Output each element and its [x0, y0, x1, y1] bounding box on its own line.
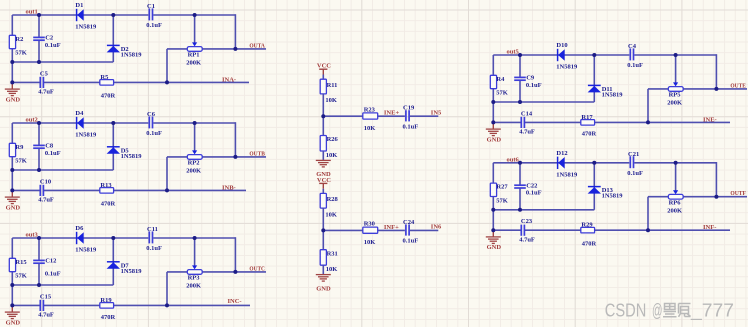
svg-text:IN6: IN6: [431, 224, 442, 231]
svg-text:GND: GND: [6, 96, 21, 103]
svg-text:1N5819: 1N5819: [602, 193, 624, 200]
svg-text:GND: GND: [6, 319, 21, 326]
svg-text:@: @: [652, 300, 663, 320]
svg-text:GND: GND: [6, 204, 21, 211]
svg-text:R2: R2: [15, 36, 23, 43]
svg-text:200K: 200K: [186, 60, 201, 67]
svg-text:0.1uF: 0.1uF: [45, 150, 61, 157]
svg-text:470R: 470R: [582, 131, 597, 138]
svg-text:C22: C22: [526, 182, 537, 189]
svg-text:D10: D10: [556, 42, 567, 49]
svg-text:R17: R17: [581, 114, 593, 121]
svg-text:C14: C14: [521, 110, 533, 117]
svg-text:out5: out5: [507, 49, 520, 56]
svg-text:0.1uF: 0.1uF: [627, 170, 643, 177]
svg-text:INC-: INC-: [228, 298, 242, 305]
svg-text:INA-: INA-: [222, 76, 236, 83]
svg-text:470R: 470R: [582, 240, 597, 247]
svg-text:0.1uF: 0.1uF: [45, 42, 61, 49]
svg-text:C19: C19: [403, 105, 415, 112]
svg-text:1N5819: 1N5819: [121, 268, 143, 275]
svg-text:OUTB: OUTB: [249, 150, 265, 157]
svg-text:INF+: INF+: [384, 224, 399, 231]
svg-text:1N5819: 1N5819: [556, 64, 578, 71]
svg-text:R23: R23: [364, 106, 376, 113]
svg-text:R26: R26: [327, 136, 339, 143]
svg-text:4.7uF: 4.7uF: [38, 89, 54, 96]
svg-text:1N5819: 1N5819: [556, 171, 578, 178]
svg-text:C8: C8: [45, 143, 54, 150]
svg-text:C24: C24: [403, 219, 415, 226]
svg-text:R11: R11: [327, 82, 338, 89]
svg-text:D6: D6: [75, 225, 84, 232]
svg-text:OUTC: OUTC: [249, 265, 265, 272]
svg-text:RP5: RP5: [669, 92, 682, 99]
svg-text:1N5819: 1N5819: [121, 153, 143, 160]
svg-text:INF-: INF-: [703, 224, 716, 231]
svg-text:0.1uF: 0.1uF: [526, 190, 542, 197]
svg-text:0.1uF: 0.1uF: [146, 22, 162, 29]
svg-text:out3: out3: [26, 232, 39, 239]
svg-text:200K: 200K: [667, 208, 682, 215]
svg-text:INE-: INE-: [703, 116, 717, 123]
svg-text:R27: R27: [496, 184, 508, 191]
svg-text:57K: 57K: [15, 158, 27, 165]
svg-text:200K: 200K: [186, 168, 201, 175]
svg-text:R4: R4: [496, 76, 505, 83]
svg-text:4.7uF: 4.7uF: [38, 312, 54, 319]
svg-text:C6: C6: [147, 111, 156, 118]
svg-text:RP6: RP6: [669, 199, 682, 206]
svg-text:200K: 200K: [667, 100, 682, 107]
svg-text:OUTF: OUTF: [730, 190, 746, 197]
svg-text:R15: R15: [15, 259, 27, 266]
svg-text:R31: R31: [327, 250, 338, 257]
svg-text:IN5: IN5: [431, 110, 442, 117]
svg-text:D1: D1: [75, 2, 83, 9]
svg-text:_777: _777: [690, 300, 734, 321]
svg-text:10K: 10K: [364, 239, 376, 246]
svg-text:C9: C9: [526, 75, 535, 82]
svg-text:10K: 10K: [325, 211, 337, 218]
svg-text:470R: 470R: [101, 314, 116, 321]
svg-text:C21: C21: [628, 151, 639, 158]
svg-text:0.1uF: 0.1uF: [403, 238, 419, 245]
svg-text:57K: 57K: [15, 273, 27, 280]
svg-text:57K: 57K: [496, 90, 508, 97]
svg-text:0.1uF: 0.1uF: [146, 245, 162, 252]
svg-text:R28: R28: [327, 196, 339, 203]
svg-text:R29: R29: [581, 222, 593, 229]
svg-text:R30: R30: [364, 221, 375, 228]
svg-text:0.1uF: 0.1uF: [403, 123, 419, 130]
svg-text:10K: 10K: [326, 152, 338, 159]
svg-text:GND: GND: [316, 285, 331, 292]
svg-text:C5: C5: [40, 70, 49, 77]
svg-text:10K: 10K: [325, 97, 337, 104]
svg-text:1N5819: 1N5819: [75, 24, 97, 31]
svg-text:200K: 200K: [186, 283, 201, 290]
svg-text:1N5819: 1N5819: [75, 132, 97, 139]
svg-text:out1: out1: [26, 9, 38, 16]
svg-text:4.7uF: 4.7uF: [38, 197, 54, 204]
svg-text:C12: C12: [45, 258, 56, 265]
svg-text:C11: C11: [147, 226, 158, 233]
svg-text:57K: 57K: [496, 197, 508, 204]
svg-text:C2: C2: [45, 35, 53, 42]
svg-text:RP1: RP1: [188, 52, 200, 59]
svg-text:D4: D4: [75, 110, 84, 117]
svg-text:57K: 57K: [15, 50, 27, 57]
svg-text:470R: 470R: [101, 201, 116, 208]
svg-text:0.1uF: 0.1uF: [146, 130, 162, 137]
svg-text:4.7uF: 4.7uF: [519, 236, 535, 243]
svg-text:D12: D12: [556, 150, 567, 157]
svg-text:out2: out2: [26, 117, 38, 124]
svg-text:R9: R9: [15, 144, 24, 151]
svg-text:GND: GND: [487, 136, 502, 143]
svg-text:4.7uF: 4.7uF: [519, 129, 535, 136]
svg-text:C10: C10: [40, 178, 51, 185]
svg-text:INE+: INE+: [384, 110, 400, 117]
svg-text:OUTE: OUTE: [730, 82, 746, 89]
svg-text:1N5819: 1N5819: [121, 52, 143, 59]
svg-text:R5: R5: [100, 74, 109, 81]
svg-text:R13: R13: [100, 182, 112, 189]
svg-text:R19: R19: [100, 297, 112, 304]
svg-text:CSDN: CSDN: [605, 300, 647, 320]
svg-text:GND: GND: [487, 244, 502, 251]
svg-text:C23: C23: [521, 218, 533, 225]
svg-text:1N5819: 1N5819: [75, 247, 97, 254]
svg-text:out6: out6: [507, 156, 520, 163]
svg-text:C1: C1: [147, 3, 155, 10]
svg-text:INB-: INB-: [222, 184, 236, 191]
svg-text:0.1uF: 0.1uF: [45, 271, 61, 278]
svg-text:C15: C15: [40, 293, 52, 300]
svg-text:RP2: RP2: [188, 160, 200, 167]
svg-text:C4: C4: [628, 43, 637, 50]
svg-text:470R: 470R: [101, 93, 116, 100]
svg-text:10K: 10K: [326, 266, 338, 273]
svg-text:0.1uF: 0.1uF: [627, 62, 643, 69]
svg-text:0.1uF: 0.1uF: [526, 82, 542, 89]
svg-text:10K: 10K: [364, 125, 376, 132]
svg-text:OUTA: OUTA: [249, 42, 265, 49]
svg-text:RP3: RP3: [188, 275, 201, 282]
svg-text:1N5819: 1N5819: [602, 92, 624, 99]
